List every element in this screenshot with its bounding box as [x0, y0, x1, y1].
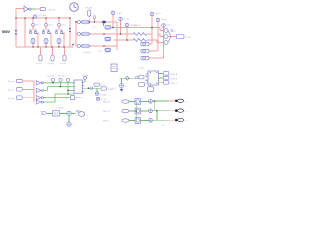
net capsule B: [93, 16, 95, 19]
resistor R2: [133, 39, 147, 42]
wire: to CLPE box: [171, 36, 177, 38]
gate G2: [135, 108, 141, 114]
relay row K3: [76, 44, 117, 52]
module box M1b: [139, 83, 145, 87]
summer circle 2: [67, 122, 71, 126]
driver column Q1: [29, 18, 41, 47]
svg-text:CLPE: CLPE: [185, 37, 191, 39]
pin arrow in: [42, 112, 47, 115]
net box TI_AN: [101, 87, 107, 90]
svg-text:TRIG_B: TRIG_B: [103, 111, 111, 113]
green ladder wires: [43, 82, 74, 102]
svg-text:QR1_b: QR1_b: [48, 25, 53, 27]
svg-text:TRIG_A: TRIG_A: [170, 73, 178, 76]
svg-text:b_NE/Tg: b_NE/Tg: [83, 52, 90, 54]
net box PI_N: [94, 83, 99, 86]
svg-text:QR1_c: QR1_c: [61, 25, 66, 27]
gate G1: [135, 99, 141, 105]
relay feed wire: [75, 22, 77, 46]
gate input c: [164, 41, 168, 45]
oval Rgx: [78, 112, 84, 117]
svg-text:4x_NE: 4x_NE: [138, 68, 144, 70]
probe TL_A0: [111, 11, 115, 15]
svg-text:IN_arq: IN_arq: [8, 80, 15, 83]
probe out A: [149, 99, 153, 103]
snubber S2: [105, 37, 111, 41]
terminal T1: [40, 47, 42, 55]
cap CA: [175, 100, 178, 103]
net label box TRI_IN: [40, 8, 45, 11]
cap CB: [175, 109, 178, 112]
svg-text:IN_arq: IN_arq: [8, 97, 15, 100]
wire: input to inverter: [16, 9, 24, 19]
inverter U1: [24, 6, 31, 11]
fuse F1: [102, 21, 106, 24]
clock symbol: [70, 3, 79, 12]
svg-text:bu_arq: bu_arq: [48, 74, 54, 77]
probe P_UN: [96, 97, 99, 100]
probe P3_AN: [96, 88, 98, 92]
snubber S1: [105, 26, 111, 30]
probe TL_B0: [119, 17, 123, 21]
probe Tgat_a: [150, 12, 154, 16]
IC right pin stubs: [83, 82, 85, 91]
wire: TL_B0 drop: [120, 21, 122, 34]
ground arrow: [71, 44, 74, 46]
net box CLPE: [177, 34, 185, 38]
filter box: [53, 111, 60, 116]
svg-text:w_c: w_c: [185, 120, 188, 122]
block PWR: [148, 71, 159, 85]
wire: Tgat_c drop: [149, 27, 164, 58]
svg-text:TRIG_C: TRIG_C: [103, 121, 111, 123]
wire: row2 net: [121, 33, 133, 35]
driver column Q3: [55, 18, 67, 47]
inline probe: [90, 87, 93, 90]
svg-text:Tgat_b: Tgat_b: [161, 18, 167, 21]
svg-text:tq_arq: tq_arq: [48, 62, 55, 65]
wire: row2 to buffer: [22, 81, 34, 102]
svg-text:QR1_a: QR1_a: [35, 25, 40, 27]
svg-text:b_1: b_1: [92, 26, 95, 28]
svg-text:Tgat_c: Tgat_c: [166, 24, 172, 27]
wire: gate outputs converge: [168, 31, 171, 43]
driver column Q2: [42, 18, 54, 47]
wire: to OR cluster: [152, 28, 164, 43]
wire: gate link vertical: [135, 102, 137, 121]
svg-text:ts_arq: ts_arq: [36, 62, 43, 65]
wire: TL_A0 drop: [111, 15, 152, 28]
wire: capsule drop: [88, 16, 90, 22]
junction diamond: [125, 76, 129, 80]
wire: Tgat_b drop: [149, 22, 158, 51]
svg-text:Ry3: Ry3: [99, 50, 102, 52]
probe Rg: [77, 110, 79, 112]
voltage source V1: [15, 18, 17, 47]
source V4: [121, 78, 123, 83]
buffer B1: [36, 81, 43, 85]
IC U10: [74, 80, 83, 93]
block left pins: [146, 73, 148, 83]
terminal T2: [52, 47, 54, 55]
svg-text:TRI_IN: TRI_IN: [48, 9, 55, 11]
svg-text:TL_B0: TL_B0: [123, 19, 129, 21]
wire: row3 net: [114, 39, 134, 41]
relay row K2: [76, 32, 121, 41]
svg-text:w_b: w_b: [185, 111, 188, 113]
buffer B3: [36, 96, 43, 100]
wire: summer down: [68, 116, 70, 122]
svg-text:IN_arq: IN_arq: [8, 89, 15, 92]
wire: Tgat_a drop: [149, 16, 152, 44]
svg-text:TRIG_B: TRIG_B: [170, 78, 178, 80]
svg-text:w_a: w_a: [185, 101, 188, 103]
svg-text:PL/arq_ar: PL/arq_ar: [58, 74, 67, 77]
wire: return vertical: [69, 18, 71, 47]
relay row K1: [76, 20, 117, 30]
gate G3: [135, 118, 141, 124]
svg-text:123A 2B: 123A 2B: [133, 24, 141, 27]
probe third: [66, 78, 69, 81]
gate input a: [164, 29, 168, 33]
wire: mid green net: [119, 77, 138, 79]
svg-text:PI_N: PI_N: [100, 85, 105, 87]
resistor R1: [133, 33, 147, 36]
junction dots: [15, 17, 157, 112]
wire: inverter output (green): [31, 8, 36, 10]
ground arrow 2: [120, 88, 123, 92]
svg-text:Tgat_a: Tgat_a: [155, 12, 162, 15]
svg-text:t2_prq: t2_prq: [60, 62, 67, 65]
net box TRIG_A out: [163, 72, 169, 75]
wire: bottom red bus: [16, 46, 73, 48]
wire: TRI_B0 drop: [126, 27, 128, 40]
connector CN3: [141, 56, 149, 60]
cap CC: [175, 119, 178, 122]
summer circle: [67, 111, 71, 115]
svg-text:TRIG_A: TRIG_A: [103, 101, 111, 104]
label 4x: [171, 30, 173, 32]
note box: [111, 64, 117, 72]
wire: block outputs: [159, 73, 164, 82]
terminal T3: [64, 47, 66, 55]
wire: top red bus: [16, 17, 70, 19]
svg-text:TRIG_C: TRIG_C: [170, 83, 178, 85]
buffer B4: [36, 100, 43, 104]
module box M2: [147, 87, 153, 92]
svg-text:P3_AN: P3_AN: [100, 94, 107, 97]
connector CN1: [141, 42, 149, 46]
net box TRIG_B out: [163, 76, 169, 79]
box below IC: [70, 96, 74, 100]
gate input b: [164, 35, 168, 39]
svg-text:A_DS/R: A_DS/R: [57, 106, 64, 109]
probe Tgat_b: [156, 18, 160, 22]
wire: row1 to buffer: [22, 80, 34, 82]
svg-text:w2: w2: [162, 125, 164, 127]
svg-text:4x: 4x: [173, 31, 175, 33]
probe Tgat_c: [162, 24, 166, 28]
probe out C: [149, 118, 153, 122]
wire: box m tail: [75, 97, 78, 99]
net flag +5V_AN: [33, 15, 36, 18]
wire: row3 to buffer: [22, 97, 34, 99]
svg-text:TL_A0: TL_A0: [116, 12, 122, 15]
probe TRI_B0: [125, 23, 129, 27]
connector CN2: [141, 49, 149, 53]
svg-text:+5V_AN: +5V_AN: [38, 14, 46, 17]
wire: IC out net: [83, 87, 102, 89]
svg-text:500V: 500V: [2, 30, 11, 34]
snubber S3: [105, 48, 111, 52]
wire: right feed vertical: [116, 22, 118, 50]
svg-text:J: J: [73, 123, 74, 125]
svg-text:TRI_A0: TRI_A0: [85, 7, 93, 10]
svg-text:a4: a4: [124, 86, 126, 88]
net box TRIG_C out: [163, 81, 169, 84]
svg-text:Ps_N: Ps_N: [112, 88, 117, 90]
probe out B: [149, 109, 153, 113]
wire: second vertical: [24, 18, 26, 47]
buffer B2: [36, 88, 43, 92]
